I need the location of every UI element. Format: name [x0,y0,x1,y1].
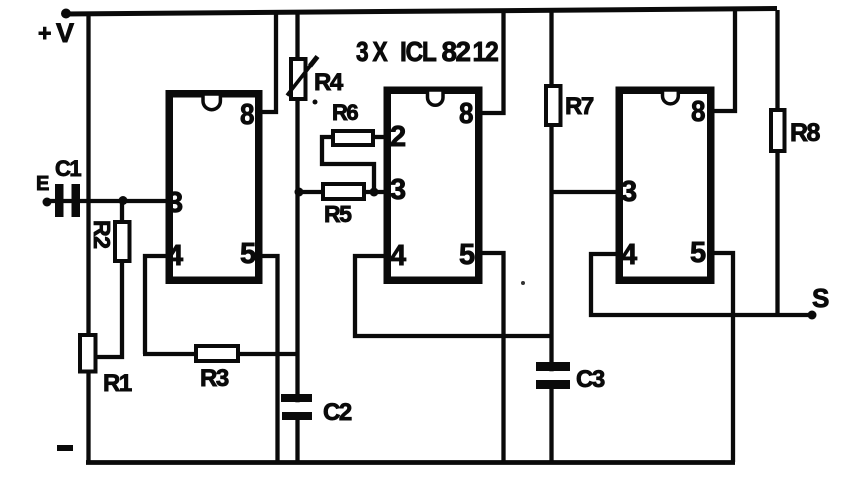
svg-text:R4: R4 [314,69,344,96]
svg-text:3: 3 [390,174,406,206]
svg-text:S: S [812,283,829,313]
svg-text:3: 3 [167,187,183,219]
svg-text:4: 4 [167,240,183,272]
svg-text:R8: R8 [790,119,821,147]
svg-text:R5: R5 [324,201,352,227]
svg-text:3 X: 3 X [356,36,388,67]
svg-text:+: + [38,20,51,46]
svg-text:3: 3 [621,176,637,208]
svg-text:8: 8 [240,99,255,131]
svg-text:8: 8 [459,98,474,130]
svg-text:ICL: ICL [400,36,437,67]
svg-text:R6: R6 [332,100,358,125]
svg-text:R2: R2 [89,220,115,248]
svg-text:R1: R1 [103,370,132,397]
svg-text:2: 2 [390,121,406,153]
svg-text:C3: C3 [576,366,605,393]
svg-text:E: E [36,173,49,195]
svg-text:R7: R7 [565,93,594,120]
svg-text:R3: R3 [200,365,229,392]
svg-text:C1: C1 [55,156,81,181]
svg-text:V: V [56,18,74,48]
svg-text:82: 82 [442,36,471,67]
svg-text:4: 4 [390,240,406,272]
svg-text:4: 4 [621,239,637,271]
svg-text:5: 5 [690,237,706,269]
svg-text:5: 5 [459,239,475,271]
svg-text:5: 5 [240,238,256,270]
svg-text:12: 12 [473,36,499,67]
svg-text:8: 8 [691,96,706,128]
svg-text:C2: C2 [323,399,352,426]
